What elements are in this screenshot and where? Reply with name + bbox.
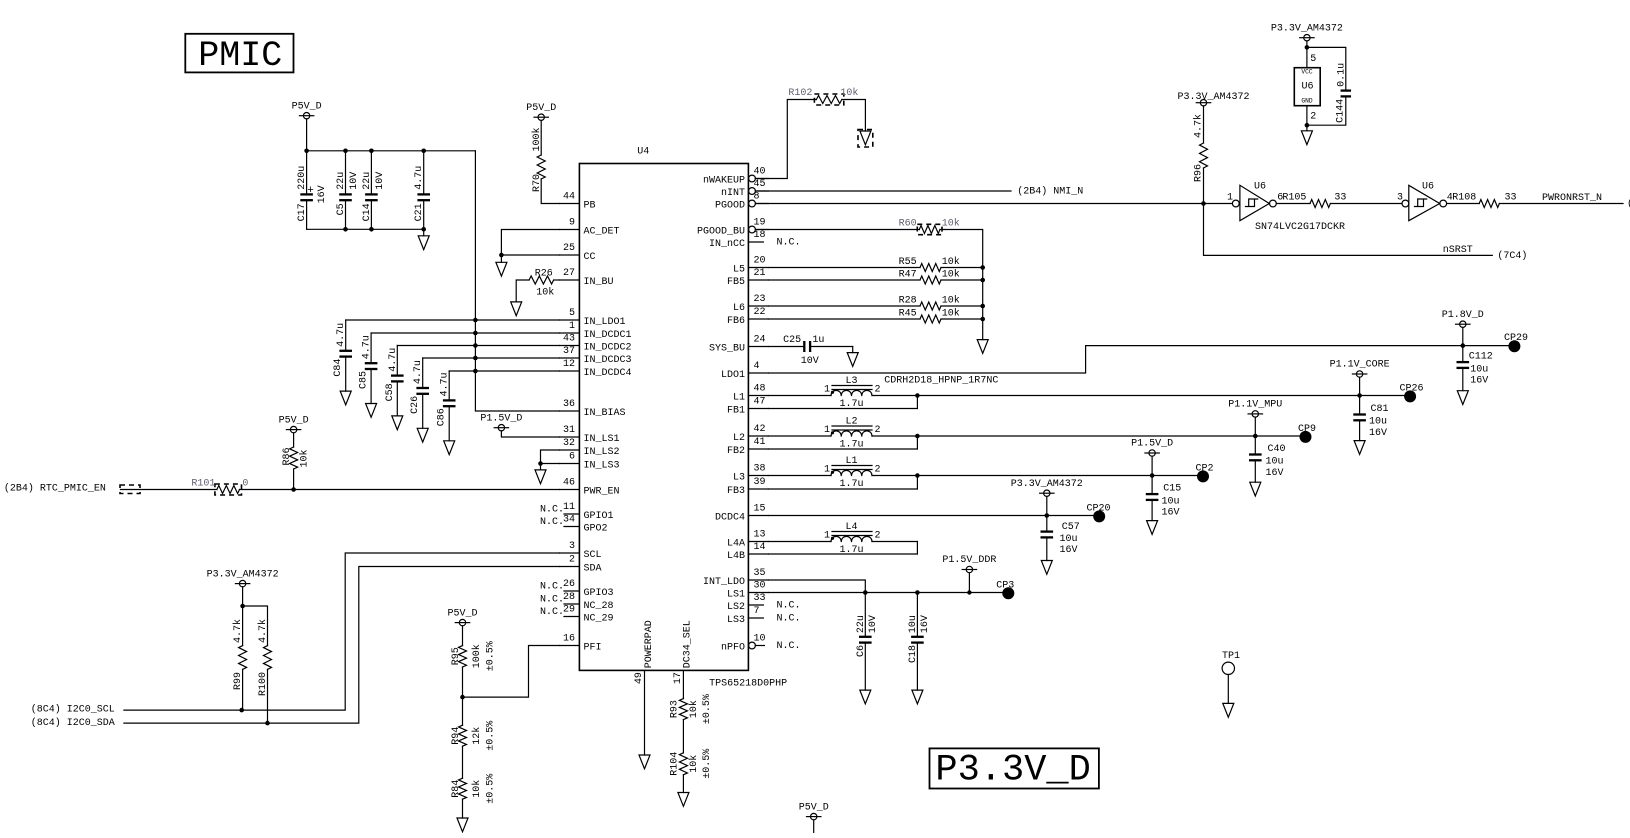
U4 right pin 42 L2 <box>748 435 768 437</box>
svg-text:1: 1 <box>824 531 830 542</box>
power flag P1.1V_CORE <box>1356 371 1362 377</box>
resistor R99 4.7k <box>242 606 244 646</box>
svg-text:44: 44 <box>563 192 575 203</box>
svg-text:5: 5 <box>1310 54 1316 65</box>
svg-text:R95: R95 <box>451 647 462 665</box>
svg-text:L6: L6 <box>733 303 745 314</box>
power flag P3.3V_AM4372 (R96) <box>1200 100 1206 106</box>
svg-text:R104: R104 <box>670 752 681 776</box>
U4 right pin 41 FB2 <box>748 448 768 450</box>
junction pullup tie <box>240 604 245 609</box>
svg-text:±0.5%: ±0.5% <box>486 774 497 804</box>
U4 right pin 4 LDO1 <box>748 372 768 374</box>
svg-text:0: 0 <box>242 479 248 490</box>
svg-text:PGOOD_BU: PGOOD_BU <box>697 227 745 238</box>
svg-text:R45: R45 <box>899 309 917 320</box>
test point CP3 <box>1002 587 1014 599</box>
test point CP20 <box>1093 510 1105 522</box>
svg-text:10V: 10V <box>801 356 819 367</box>
svg-text:PFI: PFI <box>584 643 602 654</box>
wire LS1 row to CP3 <box>768 592 1008 594</box>
svg-text:SYS_BU: SYS_BU <box>709 344 745 355</box>
svg-text:PGOOD: PGOOD <box>715 201 745 212</box>
svg-text:C5: C5 <box>336 203 347 215</box>
svg-text:R101: R101 <box>191 479 215 490</box>
svg-text:IN_LDO1: IN_LDO1 <box>584 317 626 328</box>
wire C85 branch row <box>371 332 559 334</box>
svg-text:2: 2 <box>569 555 575 566</box>
svg-text:C81: C81 <box>1371 404 1389 415</box>
svg-text:R94: R94 <box>451 727 462 745</box>
svg-text:R60: R60 <box>899 218 917 229</box>
svg-text:L2: L2 <box>845 417 857 428</box>
svg-text:±0.5%: ±0.5% <box>702 749 713 779</box>
svg-text:L1: L1 <box>845 456 857 467</box>
svg-text:IN_BU: IN_BU <box>584 277 614 288</box>
power flag P5V_D (bottom) <box>811 813 817 819</box>
U4 left pin 3 SCL <box>559 552 579 554</box>
svg-text:VCC: VCC <box>1301 68 1312 75</box>
svg-text:4.7u: 4.7u <box>413 360 424 384</box>
svg-text:30: 30 <box>754 581 766 592</box>
svg-text:C14: C14 <box>362 203 373 221</box>
svg-text:R84: R84 <box>451 780 462 798</box>
svg-text:10k: 10k <box>942 256 960 268</box>
power flag P1.5V_DDR <box>966 566 972 572</box>
resistor R26 10k <box>529 276 554 284</box>
wire R101 to PWR_EN <box>240 489 560 491</box>
svg-text:GPO2: GPO2 <box>584 524 608 535</box>
wire DCDC3 output rail <box>917 475 1203 477</box>
svg-text:CC: CC <box>584 252 596 263</box>
svg-text:3: 3 <box>1397 193 1403 204</box>
junction rail row 4 <box>473 369 478 374</box>
svg-text:C26: C26 <box>410 396 421 414</box>
wire rail feed down to IN_LDO1 rail <box>474 151 476 320</box>
svg-text:17: 17 <box>673 672 684 684</box>
junction dots top rail <box>304 149 309 154</box>
svg-text:(7C4): (7C4) <box>1497 250 1527 262</box>
wire DCDC4 row <box>768 515 1099 517</box>
svg-text:C112: C112 <box>1469 352 1493 363</box>
svg-text:33: 33 <box>1505 193 1517 204</box>
svg-text:R105: R105 <box>1282 193 1306 204</box>
wire P1.5V_D to IN_LS1 <box>501 431 559 437</box>
svg-text:nSRST: nSRST <box>1443 245 1473 256</box>
U4 right pin 30 LS1 <box>748 592 768 594</box>
resistor R55 10k <box>768 267 920 269</box>
svg-text:P3.3V_AM4372: P3.3V_AM4372 <box>1011 479 1083 490</box>
U4 left pin 43 IN_DCDC2 <box>559 345 579 347</box>
U4 right pin 22 FB6 <box>748 318 768 320</box>
svg-text:10k: 10k <box>942 217 960 229</box>
svg-text:GPIO1: GPIO1 <box>584 511 614 522</box>
buffer U6 gate B (SN74LVC2G17) <box>1402 200 1409 207</box>
wire bottom rail <box>307 228 424 230</box>
svg-text:±0.5%: ±0.5% <box>486 721 497 751</box>
U4 left pin 9 AC_DET <box>559 229 579 231</box>
svg-text:4.7u: 4.7u <box>362 335 373 359</box>
power flag P5V_D (PFI divider) <box>459 619 465 625</box>
svg-text:P5V_D: P5V_D <box>526 103 556 114</box>
svg-text:+: + <box>307 185 314 197</box>
svg-text:IN_BIAS: IN_BIAS <box>584 408 626 419</box>
svg-text:(8C4) I2C0_SDA: (8C4) I2C0_SDA <box>31 717 115 729</box>
U4 right pin 20 L5 <box>748 267 768 269</box>
capacitor C18 10u 16V <box>916 593 918 636</box>
svg-text:46: 46 <box>563 478 575 489</box>
U4 left pin 16 PFI <box>559 645 579 647</box>
U4 left pin 46 PWR_EN <box>559 489 579 491</box>
resistor R45 10k <box>768 318 920 320</box>
svg-text:19: 19 <box>754 218 766 229</box>
wire R60 to pulldown bus <box>940 230 983 340</box>
svg-text:C17: C17 <box>297 203 308 221</box>
svg-text:PWRONRST_N: PWRONRST_N <box>1542 193 1602 204</box>
svg-text:28: 28 <box>563 592 575 603</box>
U4 left pin 12 IN_DCDC4 <box>559 370 579 372</box>
junction rail row 1 <box>473 331 478 336</box>
ground at POWERPAD <box>639 755 650 769</box>
svg-text:2: 2 <box>1310 112 1316 123</box>
power flag P1.5V_D (IN_LS1) <box>498 425 504 431</box>
svg-text:P3.3V_AM4372: P3.3V_AM4372 <box>1271 23 1343 34</box>
svg-text:1.7u: 1.7u <box>839 399 863 410</box>
ground below pulldown bus <box>977 340 988 354</box>
svg-text:P5V_D: P5V_D <box>279 415 309 426</box>
ground below C15 <box>1147 521 1158 535</box>
U4 left pin 44 PB <box>559 203 579 205</box>
U4 right pin 33 LS2 <box>748 604 763 606</box>
ground below C58 <box>392 416 403 430</box>
capacitor C57 10u 16V <box>1046 516 1048 531</box>
capacitor C17 220u 16V (polarized) <box>306 151 308 194</box>
svg-text:47: 47 <box>754 397 766 408</box>
svg-text:R86: R86 <box>282 447 293 465</box>
wire RTC_PMIC_EN to R101 <box>121 489 217 491</box>
ground below C86 <box>444 441 455 455</box>
svg-text:21: 21 <box>754 268 766 279</box>
U4 left pin 29 NC_29 <box>564 616 579 618</box>
svg-text:10u: 10u <box>1266 457 1284 468</box>
capacitor C112 10u 16V <box>1462 346 1464 361</box>
power flag P5V_D (R70) <box>538 114 544 120</box>
svg-text:P3.3V_AM4372: P3.3V_AM4372 <box>1177 92 1249 103</box>
svg-text:L1: L1 <box>733 393 745 404</box>
resistor R104 10k 0.5% <box>679 753 687 775</box>
svg-text:IN_nCC: IN_nCC <box>709 239 745 250</box>
junction C15 <box>1150 473 1155 478</box>
svg-text:1.7u: 1.7u <box>839 440 863 451</box>
svg-text:P3.3V_AM4372: P3.3V_AM4372 <box>207 569 279 580</box>
resistor R60 10k (highlighted) <box>919 226 940 234</box>
svg-text:R99: R99 <box>233 672 244 690</box>
resistor R102 10k (highlighted) <box>816 96 841 104</box>
svg-text:CP29: CP29 <box>1504 333 1528 344</box>
junction rail row 3 <box>473 356 478 361</box>
wire CC <box>501 254 559 256</box>
svg-text:35: 35 <box>754 568 766 579</box>
svg-text:U6: U6 <box>1422 181 1434 192</box>
svg-text:10u: 10u <box>1060 534 1078 545</box>
U4 right pin 40 nWAKEUP <box>749 175 756 182</box>
capacitor C58 4.7u <box>396 346 398 375</box>
wire DCDC2 output rail <box>917 435 1305 437</box>
svg-text:12: 12 <box>563 359 575 370</box>
wire top rail <box>307 150 476 152</box>
svg-text:16V: 16V <box>1060 545 1078 556</box>
svg-text:15: 15 <box>754 504 766 515</box>
svg-text:2: 2 <box>875 531 881 542</box>
svg-text:10V: 10V <box>375 172 386 190</box>
svg-text:48: 48 <box>754 384 766 395</box>
wire C58 branch row <box>397 345 559 347</box>
capacitor C14 22u 10V <box>370 151 372 194</box>
power flag P5V_D (R86) <box>290 426 296 432</box>
svg-text:(2B4) NMI_N: (2B4) NMI_N <box>1017 186 1083 198</box>
svg-text:N.C.: N.C. <box>777 614 801 625</box>
svg-text:C6: C6 <box>856 645 867 657</box>
svg-text:10k: 10k <box>688 700 700 718</box>
junction AC_DET/CC/gnd <box>499 253 504 258</box>
junction R28 bus <box>980 304 985 309</box>
title box PMIC <box>185 34 293 73</box>
svg-text:1: 1 <box>824 425 830 436</box>
U4 bottom pin 49 POWERPAD <box>644 670 646 755</box>
svg-text:CP3: CP3 <box>996 581 1014 592</box>
resistor R93 10k 0.5% <box>679 699 687 720</box>
svg-text:N.C.: N.C. <box>540 517 564 528</box>
svg-text:10V: 10V <box>349 172 360 190</box>
svg-text:C144: C144 <box>1335 99 1346 123</box>
U4 left pin 31 IN_LS1 <box>559 436 579 438</box>
svg-text:22u: 22u <box>362 172 373 190</box>
svg-text:U6: U6 <box>1301 82 1313 93</box>
svg-text:LS2: LS2 <box>727 602 745 613</box>
capacitor C86 4.7u <box>448 371 450 399</box>
U4 right pin 15 DCDC4 <box>748 515 768 517</box>
svg-text:3: 3 <box>569 541 575 552</box>
U4 right pin 21 FB5 <box>748 279 768 281</box>
svg-text:N.C.: N.C. <box>540 607 564 618</box>
wire I2C0_SCL to SCL pin <box>124 553 560 710</box>
svg-text:C58: C58 <box>385 383 396 401</box>
svg-text:U6: U6 <box>1254 181 1266 192</box>
svg-text:IN_LS2: IN_LS2 <box>584 447 620 458</box>
resistor R100 4.7k <box>264 646 272 670</box>
svg-text:L4: L4 <box>845 522 857 533</box>
U4 right pin 7 LS3 <box>748 617 763 619</box>
svg-text:N.C.: N.C. <box>777 238 801 249</box>
power flag P3.3V_AM4372 (I2C pullups) <box>239 580 245 586</box>
wire AC_DET to CC tie <box>501 230 559 256</box>
junction rail row 2 <box>473 343 478 348</box>
resistor R47 10k <box>768 279 920 281</box>
title box P3.3V_D <box>930 748 1099 788</box>
svg-text:AC_DET: AC_DET <box>584 227 620 238</box>
svg-text:C85: C85 <box>359 371 370 389</box>
svg-text:R47: R47 <box>899 270 917 281</box>
junction C18 <box>915 590 920 595</box>
svg-text:4.7k: 4.7k <box>1193 114 1205 138</box>
svg-text:6: 6 <box>569 452 575 463</box>
wire PGOOD to gate input <box>756 203 1233 205</box>
capacitor C6 22u 10V <box>864 593 866 636</box>
svg-text:CDRH2D18_HPNP_1R7NC: CDRH2D18_HPNP_1R7NC <box>884 376 998 387</box>
ground below C26 <box>417 428 428 442</box>
ground below R26 <box>511 302 522 316</box>
svg-text:CP20: CP20 <box>1086 503 1110 514</box>
svg-text:33: 33 <box>754 593 766 604</box>
svg-text:NC_28: NC_28 <box>584 601 614 612</box>
svg-text:1u: 1u <box>812 335 824 346</box>
svg-text:45: 45 <box>754 179 766 190</box>
svg-text:SN74LVC2G17DCKR: SN74LVC2G17DCKR <box>1255 222 1345 233</box>
U4 left pin 25 CC <box>559 254 579 256</box>
wire C84 branch row <box>346 319 560 321</box>
junction R55 bus <box>980 265 985 270</box>
resistor R101 0 ohm (highlighted) <box>217 486 240 494</box>
junction R47 bus <box>980 278 985 283</box>
ground below IN_LS3 tie <box>540 464 542 470</box>
inductor L2 1.7u (DCDC2) <box>768 435 831 437</box>
junction U6 gnd <box>1305 123 1310 128</box>
svg-text:C15: C15 <box>1163 484 1181 495</box>
svg-text:16V: 16V <box>1369 428 1387 439</box>
junction dots bottom rail <box>343 227 348 232</box>
wire R102 to ground <box>842 100 866 132</box>
svg-text:27: 27 <box>563 268 575 279</box>
U4 right pin 10 nPFO <box>749 642 756 649</box>
U4 left pin 34 GPO2 <box>564 526 579 528</box>
svg-text:10k: 10k <box>942 308 960 320</box>
capacitor C5 22u 10V <box>345 151 347 194</box>
svg-text:R28: R28 <box>899 296 917 307</box>
svg-text:49: 49 <box>634 672 645 684</box>
U4 right pin 14 L4B <box>748 553 768 555</box>
ground below R104 <box>678 793 689 807</box>
inductor L3 1.7u (DCDC1) <box>768 395 831 397</box>
svg-text:R100: R100 <box>258 672 269 696</box>
svg-text:CP26: CP26 <box>1399 383 1423 394</box>
power flag P3.3V_AM4372 (DCDC4) <box>1044 490 1050 496</box>
svg-text:P1.5V_D: P1.5V_D <box>480 413 522 424</box>
resistor R94 12k 0.5% <box>462 697 464 725</box>
svg-text:8: 8 <box>754 192 760 203</box>
svg-text:nWAKEUP: nWAKEUP <box>703 176 745 187</box>
svg-text:nINT: nINT <box>721 188 745 199</box>
ground below C18 <box>912 690 923 704</box>
U4 right pin 18 IN_nCC <box>748 241 763 243</box>
svg-text:10k: 10k <box>942 269 960 281</box>
U4 left pin 1 IN_DCDC1 <box>559 332 579 334</box>
svg-text:N.C.: N.C. <box>540 582 564 593</box>
resistor R86 10k <box>293 433 295 447</box>
resistor R28 10k <box>768 305 920 307</box>
junction L3 output <box>915 393 920 398</box>
svg-text:N.C.: N.C. <box>540 505 564 516</box>
svg-text:P5V_D: P5V_D <box>292 101 322 112</box>
svg-text:R55: R55 <box>899 257 917 268</box>
U6 power block VCC/GND <box>1294 68 1320 106</box>
svg-text:C21: C21 <box>414 203 425 221</box>
svg-text:N.C.: N.C. <box>777 601 801 612</box>
U4 right pin 47 FB1 <box>748 408 768 410</box>
capacitor C40 10u 16V <box>1254 436 1256 453</box>
svg-text:FB3: FB3 <box>727 486 745 497</box>
ground below C6 <box>860 690 871 704</box>
svg-text:nPFO: nPFO <box>721 643 745 654</box>
svg-text:18: 18 <box>754 230 766 241</box>
svg-text:IN_DCDC2: IN_DCDC2 <box>584 343 632 354</box>
U4 right pin 35 INT_LDO <box>748 579 768 581</box>
svg-text:R102: R102 <box>788 88 812 99</box>
svg-text:39: 39 <box>754 477 766 488</box>
svg-text:L2: L2 <box>733 433 745 444</box>
svg-text:25: 25 <box>563 243 575 254</box>
resistor R105 33 <box>1276 203 1310 205</box>
svg-text:7: 7 <box>754 606 760 617</box>
svg-text:FB2: FB2 <box>727 446 745 457</box>
svg-text:L4B: L4B <box>727 551 745 562</box>
inductor L4 1.7u (DCDC4 LS) <box>768 541 831 543</box>
svg-text:C57: C57 <box>1062 522 1080 533</box>
U4 left pin 2 SDA <box>559 566 579 568</box>
junction C57 <box>1045 513 1050 518</box>
IC U4 TPS65218D0PHP body <box>579 164 748 671</box>
capacitor C25 1u 10V <box>768 346 803 348</box>
test point CP9 <box>1300 431 1312 443</box>
svg-text:16V: 16V <box>317 185 328 203</box>
junction P1.5V_DDR <box>967 590 971 594</box>
svg-text:10k: 10k <box>840 87 858 99</box>
svg-text:16V: 16V <box>1266 468 1284 479</box>
power flag P1.8V_D <box>1460 321 1466 327</box>
svg-text:SCL: SCL <box>584 550 602 561</box>
svg-text:10k: 10k <box>688 755 700 773</box>
svg-text:FB1: FB1 <box>727 406 745 417</box>
U4 right pin 24 SYS_BU <box>748 346 768 348</box>
wire INT_LDO jog <box>768 580 865 593</box>
junction PFI tap <box>460 695 465 700</box>
svg-text:10V: 10V <box>868 615 879 633</box>
svg-text:40: 40 <box>754 167 766 178</box>
svg-text:10u: 10u <box>1162 496 1180 507</box>
capacitor C84 4.7u <box>345 320 347 350</box>
test point CP26 <box>1404 390 1416 402</box>
wire PFI tap <box>463 646 560 698</box>
ground below CC tie <box>500 255 502 262</box>
svg-text:P1.1V_MPU: P1.1V_MPU <box>1228 400 1282 411</box>
junction L1 output <box>915 473 920 478</box>
svg-text:NC_29: NC_29 <box>584 614 614 625</box>
svg-text:R108: R108 <box>1452 193 1476 204</box>
svg-text:IN_LS1: IN_LS1 <box>584 434 620 445</box>
svg-text:DCDC4: DCDC4 <box>715 513 745 524</box>
svg-text:10u: 10u <box>1369 417 1387 428</box>
svg-text:P1.1V_CORE: P1.1V_CORE <box>1330 360 1390 371</box>
junction C112 <box>1461 343 1466 348</box>
svg-text:14: 14 <box>754 542 766 553</box>
svg-text:(2B4) RTC_PMIC_EN: (2B4) RTC_PMIC_EN <box>4 483 106 495</box>
svg-text:10k: 10k <box>471 780 483 798</box>
svg-text:C18: C18 <box>908 645 919 663</box>
U4 right pin 48 L1 <box>748 395 768 397</box>
U4 left pin 36 IN_BIAS <box>559 410 579 412</box>
svg-text:INT_LDO: INT_LDO <box>703 577 745 588</box>
svg-text:41: 41 <box>754 437 766 448</box>
svg-text:100k: 100k <box>531 127 543 151</box>
